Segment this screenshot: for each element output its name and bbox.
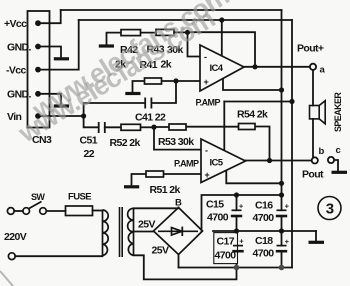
- svg-text:4700: 4700: [253, 248, 275, 260]
- ground center rail: [309, 241, 325, 244]
- svg-text:P.AMP: P.AMP: [174, 159, 199, 169]
- terminal 220V top: [7, 208, 14, 215]
- node IC5 output: [267, 158, 272, 163]
- wire node D down to IC5 minus input: [154, 127, 201, 149]
- transformer core: [120, 207, 123, 257]
- wire R43 to node B: [174, 31, 188, 33]
- svg-text:C18: C18: [255, 235, 273, 247]
- node minus rail C17: [234, 265, 240, 271]
- svg-text:+: +: [239, 237, 244, 246]
- wire +Vcc rail top: [61, 9, 282, 11]
- wire IC5 supply feed from rail B: [224, 101, 292, 103]
- svg-text:-: -: [204, 52, 207, 62]
- svg-text:C16: C16: [255, 200, 273, 212]
- transformer primary: [103, 210, 109, 256]
- svg-text:FUSE: FUSE: [68, 192, 91, 203]
- node IC4 top supply on rail B: [219, 17, 224, 22]
- svg-text:SPEAKER: SPEAKER: [333, 92, 343, 132]
- svg-text:+: +: [239, 202, 244, 211]
- wire -Vcc rail: [79, 19, 292, 21]
- ground R51: [124, 185, 139, 188]
- svg-text:25V: 25V: [138, 219, 155, 231]
- terminal b: [312, 157, 318, 163]
- svg-text:B: B: [175, 198, 182, 209]
- pin Vin: [35, 113, 41, 119]
- svg-text:+: +: [204, 77, 209, 87]
- terminal 220V bottom: [8, 253, 15, 260]
- svg-text:R52 2k: R52 2k: [110, 137, 141, 149]
- wire minus rail bottom: [179, 267, 293, 269]
- wire C15 to center rail: [236, 216, 238, 231]
- wire center rail ground stem: [315, 231, 317, 241]
- svg-text:C17: C17: [217, 236, 235, 248]
- node plus rail C15: [234, 192, 239, 197]
- transformer secondary: [128, 208, 134, 255]
- wire C17 bottom lead: [236, 251, 238, 267]
- wire Vin pin: [38, 115, 84, 117]
- fuse FUSE: [66, 206, 93, 216]
- capacitor C51: [99, 122, 105, 133]
- svg-text:SW: SW: [31, 192, 45, 202]
- op-amp IC5: [201, 139, 246, 183]
- wire node B down to IC4 minus input: [188, 32, 201, 56]
- wire vertical rail A: [281, 10, 283, 210]
- svg-text:R51 2k: R51 2k: [150, 184, 181, 196]
- wire secondary top to bridge: [134, 207, 179, 210]
- svg-text:GND.: GND.: [7, 42, 32, 54]
- svg-text:R53 30k: R53 30k: [158, 136, 194, 148]
- ground R42: [99, 44, 114, 47]
- node IC5 top supply on rail B: [289, 99, 294, 104]
- wire plus rail from bridge: [202, 195, 282, 231]
- wire R41 to node C: [162, 80, 177, 82]
- svg-text:Pout+: Pout+: [297, 43, 324, 55]
- ground R41: [125, 92, 140, 95]
- pin -Vcc: [35, 67, 41, 73]
- resistor R41: [145, 78, 162, 84]
- speaker: [310, 101, 326, 124]
- node R43 feedback: [185, 30, 190, 35]
- svg-text:3: 3: [326, 201, 334, 218]
- pin GND2: [35, 91, 41, 97]
- wire IC4 top supply pin: [221, 20, 223, 56]
- resistor R53: [169, 124, 186, 130]
- svg-text:+Vcc: +Vcc: [4, 18, 27, 30]
- wire Vin node down to C51: [84, 116, 99, 127]
- label C17: [214, 233, 238, 264]
- svg-text:b: b: [319, 146, 325, 157]
- svg-text:R54 2k: R54 2k: [237, 109, 268, 121]
- svg-text:C41 22: C41 22: [135, 112, 166, 124]
- wire -Vcc pin to rail: [38, 20, 79, 70]
- connector CN3: [28, 11, 50, 128]
- svg-text:P.AMP: P.AMP: [196, 98, 221, 108]
- wire vertical rail B: [291, 20, 293, 268]
- wire node D to R53: [154, 126, 169, 128]
- node minus rail C18: [279, 265, 285, 271]
- svg-text:220V: 220V: [4, 231, 27, 243]
- wire ground to R41: [133, 81, 145, 92]
- svg-text:+: +: [285, 237, 290, 246]
- svg-text:IC4: IC4: [210, 63, 224, 74]
- wire R42 to R43: [141, 32, 157, 34]
- op-amp IC4: [200, 45, 244, 91]
- terminal a: [310, 64, 316, 70]
- svg-text:4700: 4700: [207, 212, 229, 224]
- wire 220V bottom to primary: [15, 255, 102, 257]
- wire Vin node up to C41 row: [84, 103, 145, 116]
- wire IC5 top supply pin: [223, 102, 225, 151]
- svg-text:25V: 25V: [152, 245, 169, 257]
- ground CN3 GND2: [54, 104, 69, 107]
- wire IC5 bottom supply pin: [226, 170, 281, 183]
- capacitor C16: [276, 202, 290, 217]
- node IC4 bottom supply on rail A: [279, 87, 284, 92]
- bridge rectifier B: [154, 208, 203, 255]
- svg-text:22: 22: [84, 148, 95, 160]
- resistor R52: [121, 124, 141, 130]
- node plus rail A: [279, 192, 284, 197]
- node IC4 output: [252, 64, 257, 69]
- wire R52 to node D: [141, 126, 155, 128]
- svg-text:-Vcc: -Vcc: [6, 65, 27, 77]
- wire secondary bottom loop: [134, 255, 237, 279]
- wire secondary center tap to bridge left corner: [134, 231, 154, 233]
- wire switch to fuse: [46, 210, 65, 212]
- resistor R51: [146, 171, 164, 177]
- node center rail C16: [279, 228, 284, 233]
- capacitor C41: [145, 98, 151, 109]
- wire GND pin 4: [38, 94, 61, 104]
- svg-text:IC5: IC5: [210, 158, 224, 169]
- resistor R43: [156, 29, 174, 35]
- wire C16 to center rail: [281, 216, 283, 231]
- pin GND: [35, 44, 41, 50]
- switch SW: [23, 202, 46, 215]
- wire bridge bottom corner lead: [178, 255, 180, 268]
- wire GND pin 2: [38, 47, 61, 57]
- wire ground to R42: [107, 33, 122, 45]
- svg-text:-: -: [205, 146, 208, 156]
- wire speaker bottom lead: [312, 119, 314, 157]
- svg-text:4700: 4700: [253, 212, 275, 224]
- svg-text:c: c: [336, 145, 341, 156]
- wire C18 top lead: [281, 231, 283, 246]
- wire ground to R51: [132, 174, 147, 185]
- wire C15 branch top: [236, 195, 238, 210]
- ground terminal c: [332, 171, 348, 174]
- watermark corner tick: [0, 271, 13, 286]
- svg-text:+: +: [205, 170, 210, 180]
- wire center rail: [213, 230, 316, 232]
- node C41-R41: [173, 78, 178, 83]
- wire C18 bottom lead: [281, 251, 283, 267]
- wire C17 top lead: [236, 231, 238, 246]
- wire fuse to primary: [93, 210, 103, 212]
- wire C41 to R41 node: [151, 81, 176, 103]
- wire IC4 bottom supply pin: [223, 78, 282, 90]
- wire feedback rail IC4: [188, 32, 256, 67]
- node R52-R53: [151, 125, 156, 130]
- circled 3: [318, 197, 341, 220]
- capacitor C17: [232, 237, 244, 252]
- pin +Vcc: [35, 20, 41, 26]
- wire terminal c to ground: [334, 160, 339, 171]
- node center rail C15: [234, 228, 239, 233]
- wire R53 to R54: [186, 126, 239, 128]
- resistor R54: [239, 124, 256, 130]
- svg-text:C51: C51: [80, 135, 98, 147]
- wire IC4 output row to terminal a: [244, 66, 310, 68]
- capacitor C18: [276, 237, 290, 251]
- wire node C to IC4 plus input: [176, 80, 200, 82]
- capacitor C15: [231, 202, 244, 217]
- node Vin junction: [81, 113, 86, 118]
- node IC5 bottom supply on rail A: [279, 181, 284, 186]
- ground CN3 GND1: [54, 57, 69, 60]
- wire 220V top to switch: [14, 210, 23, 212]
- svg-text:+: +: [285, 202, 290, 211]
- svg-text:C15: C15: [206, 199, 224, 211]
- wire speaker top lead: [312, 70, 314, 106]
- wire IC5 output row to terminal b: [246, 160, 313, 162]
- wire C51 to R52: [105, 126, 121, 128]
- wire R54 to IC5 output node: [255, 127, 270, 161]
- resistor R42: [121, 30, 141, 36]
- wire +Vcc pin to rail: [38, 10, 61, 23]
- wire R51 to IC5 plus input: [164, 173, 202, 175]
- terminal c: [328, 157, 334, 163]
- svg-text:Pout: Pout: [302, 169, 324, 181]
